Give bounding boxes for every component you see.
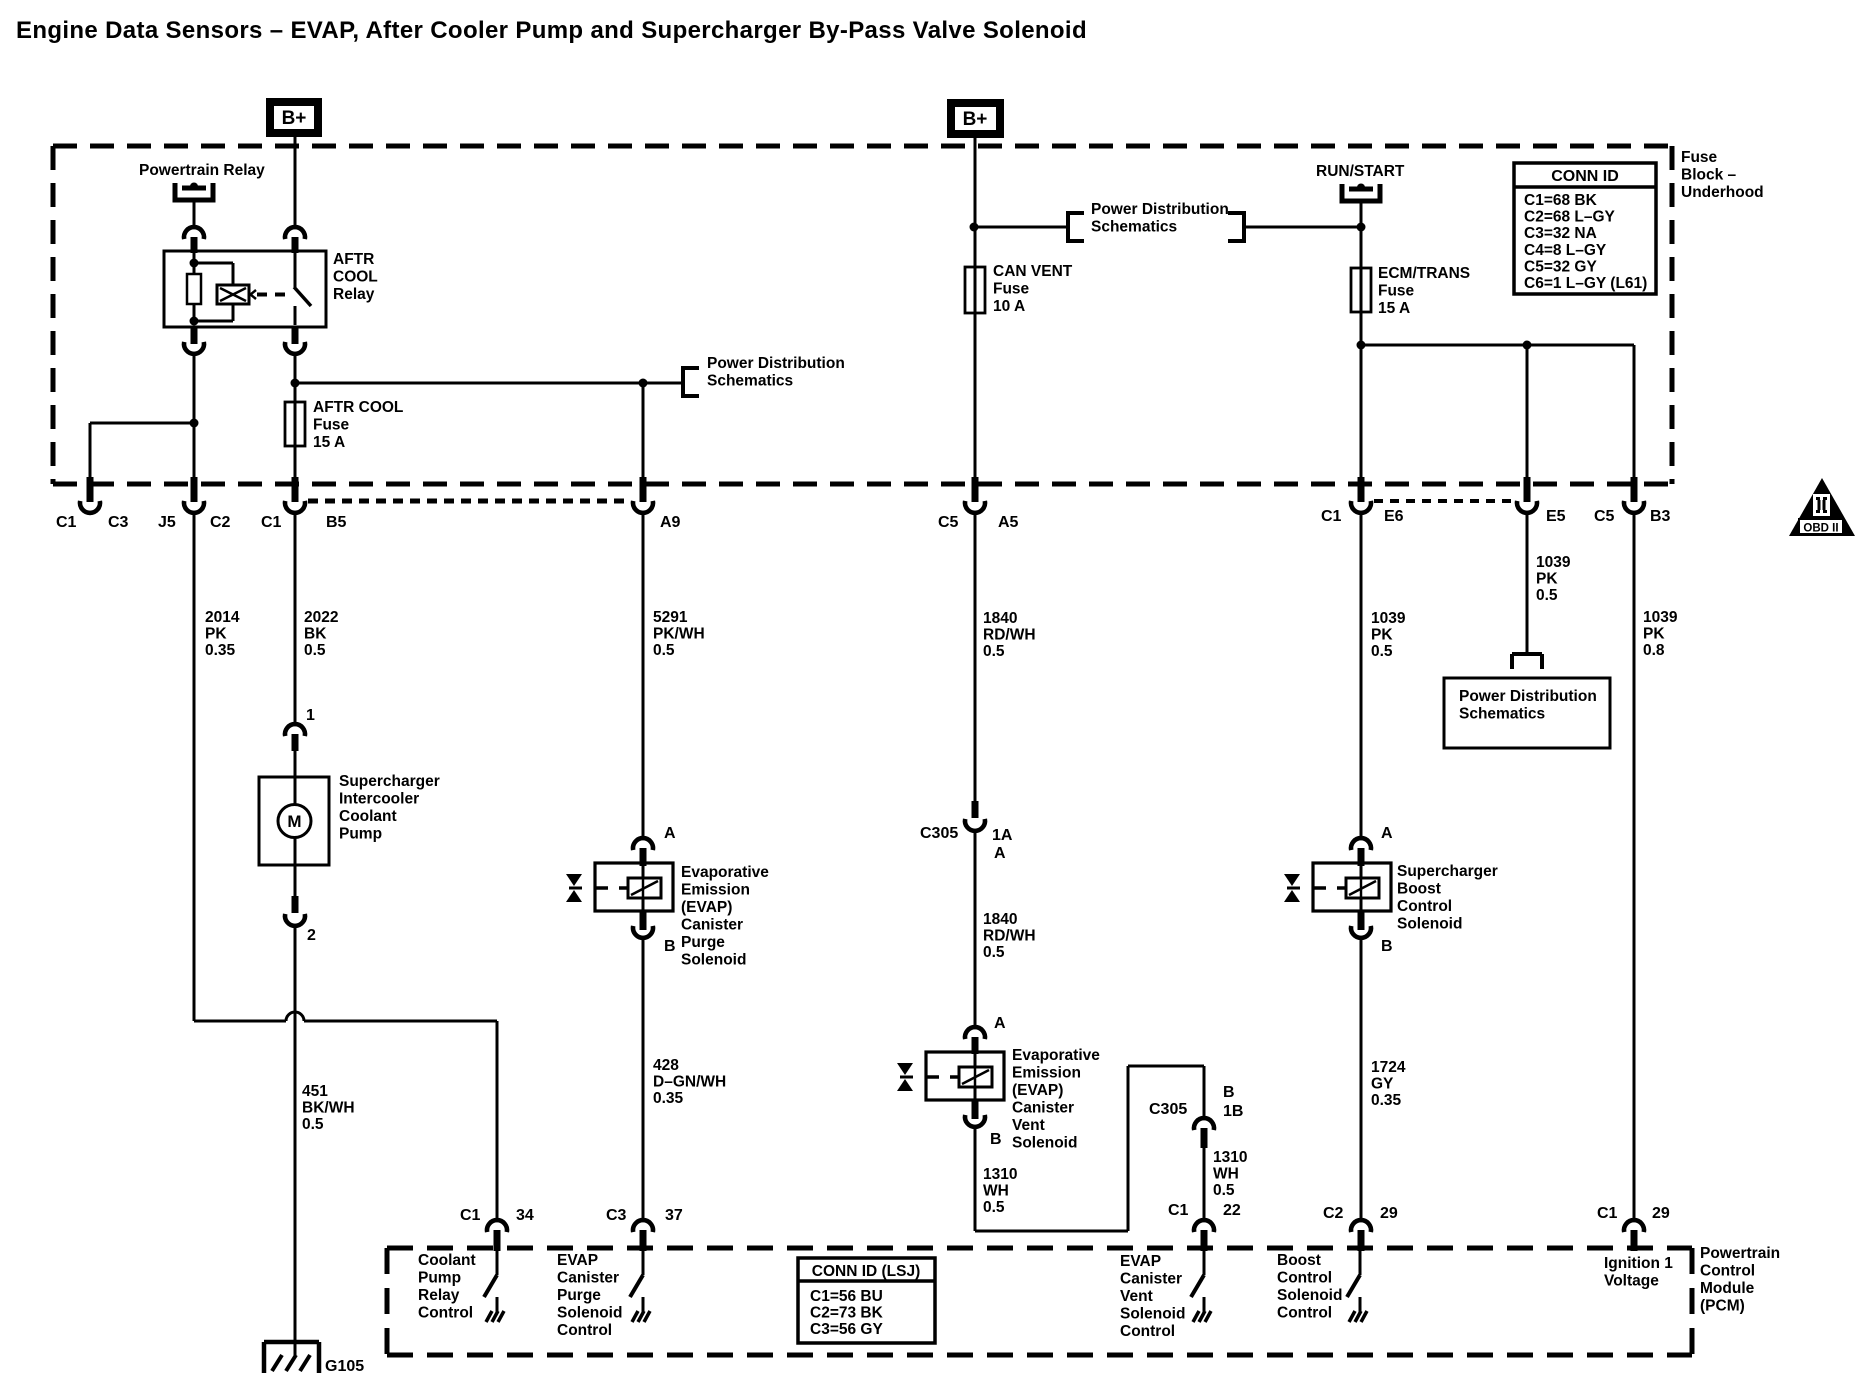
svg-text:0.8: 0.8 (1643, 642, 1665, 659)
solenoid supercharger boost control (1313, 863, 1391, 911)
valve symbol vent (897, 1063, 913, 1091)
label 1B (1223, 1103, 1243, 1120)
svg-text:Control: Control (1397, 898, 1452, 915)
svg-text:C5=32 GY: C5=32 GY (1524, 258, 1597, 275)
label vent pin B (990, 1131, 1002, 1148)
connector boost pin A (1351, 838, 1371, 866)
svg-text:D–GN/WH: D–GN/WH (653, 1074, 726, 1091)
switch EVAP canister vent solenoid control (1191, 1251, 1211, 1322)
table CONN ID LSJ (798, 1258, 935, 1343)
switch boost control solenoid control (1347, 1251, 1367, 1322)
junction CAN VENT feed (970, 223, 979, 232)
svg-text:RUN/START: RUN/START (1316, 163, 1405, 180)
svg-text:1: 1 (306, 707, 315, 724)
bracket power distribution right (1228, 211, 1244, 243)
label Evaporative Emission EVAP Canister Vent Solenoid (1012, 1047, 1100, 1152)
svg-text:0.5: 0.5 (983, 944, 1005, 961)
svg-text:WH: WH (983, 1183, 1009, 1200)
label pin 2 (307, 927, 316, 944)
wire C305 1B to PCM (1203, 1148, 1206, 1220)
wire junction to power distribution bracket (295, 382, 683, 385)
ground G105 (264, 1342, 319, 1373)
label C1 (B5) (261, 514, 282, 531)
label 22 (1223, 1202, 1241, 1219)
label wire 2014 PK 0.35 (205, 609, 240, 659)
connector pump pin 1 (285, 724, 305, 751)
svg-text:Coolant: Coolant (418, 1252, 476, 1269)
label 29 (C1) (1652, 1205, 1670, 1222)
label 37 (665, 1207, 683, 1224)
label pin 1 (306, 707, 315, 724)
svg-text:Emission: Emission (681, 882, 750, 899)
label wire 1039 PK 0.5 (E6) (1371, 610, 1406, 660)
wire B3 to PCM ignition (1633, 514, 1636, 1220)
label 29 (C2) (1380, 1205, 1398, 1222)
svg-text:0.35: 0.35 (653, 1090, 684, 1107)
wire junction to bracket (974, 226, 1068, 229)
svg-text:0.5: 0.5 (1536, 587, 1558, 604)
label wire 1840 RD/WH 0.5 lower (983, 911, 1036, 961)
svg-text:CONN ID (LSJ): CONN ID (LSJ) (812, 1263, 921, 1280)
svg-text:CAN VENT: CAN VENT (993, 263, 1073, 280)
svg-text:Supercharger: Supercharger (339, 773, 440, 790)
box Power Distribution Schematics (1444, 678, 1610, 748)
svg-text:PK: PK (1371, 627, 1393, 644)
connector C305 1A (965, 801, 985, 831)
label Supercharger Intercooler Coolant Pump (339, 773, 440, 843)
svg-text:2022: 2022 (304, 609, 338, 626)
label wire 1310 WH 0.5 (right) (1213, 1149, 1247, 1199)
wire CAN VENT fuse to connector A5 (974, 313, 977, 478)
fuse CAN VENT (965, 267, 985, 313)
wire relay coil pin to connector C2 (193, 355, 196, 478)
label B5 (326, 514, 347, 531)
wire C2 column jog to PCM connector (194, 514, 497, 1220)
wire vent pin B jog to C305 1B (975, 1066, 1204, 1231)
connector PCM C3 37 (633, 1220, 653, 1251)
connector pump pin 2 (285, 865, 305, 926)
svg-text:WH: WH (1213, 1166, 1239, 1183)
wire A5 to C305 (974, 514, 977, 801)
label B3 (1650, 508, 1671, 525)
svg-text:29: 29 (1652, 1205, 1670, 1222)
label wire 428 D-GN/WH 0.35 (653, 1057, 726, 1107)
label J5 (158, 514, 176, 531)
svg-text:(EVAP): (EVAP) (1012, 1082, 1063, 1099)
svg-text:C4=8 L–GY: C4=8 L–GY (1524, 242, 1607, 259)
svg-text:428: 428 (653, 1057, 679, 1074)
connector C1/C3 (80, 477, 100, 513)
svg-text:0.35: 0.35 (205, 642, 236, 659)
fuse block underhood dashed boundary (53, 146, 1672, 484)
label wire 2022 BK 0.5 (304, 609, 338, 659)
label Evaporative Emission EVAP Canister Purge Solenoid (681, 864, 769, 969)
svg-text:Solenoid: Solenoid (681, 952, 746, 969)
run/start feed symbol (1340, 184, 1383, 204)
svg-text:PK: PK (1536, 571, 1558, 588)
symbol OBD II (1789, 478, 1855, 536)
wire run/start to fuse (1360, 201, 1363, 268)
label ECM/TRANS Fuse 15 A (1378, 265, 1470, 317)
svg-text:Boost: Boost (1397, 881, 1441, 898)
svg-text:C3=32 NA: C3=32 NA (1524, 225, 1597, 242)
svg-text:29: 29 (1380, 1205, 1398, 1222)
table CONN ID underhood (1514, 163, 1656, 294)
label 1A (992, 827, 1013, 844)
svg-text:C5: C5 (1594, 508, 1615, 525)
svg-text:A9: A9 (660, 514, 681, 531)
svg-text:Supercharger: Supercharger (1397, 863, 1498, 880)
wire distribution to B3 column (1361, 344, 1634, 347)
label C5 (B3) (1594, 508, 1615, 525)
svg-text:Solenoid: Solenoid (1277, 1287, 1342, 1304)
label wire 1840 RD/WH 0.5 upper (983, 610, 1036, 660)
label Fuse Block - Underhood (1681, 149, 1764, 201)
solenoid EVAP canister purge (595, 863, 673, 911)
svg-text:1A: 1A (992, 827, 1013, 844)
wire B+ right to CAN VENT fuse (974, 138, 977, 267)
svg-text:Power Distribution: Power Distribution (707, 355, 845, 372)
connector relay switch pin bottom (285, 327, 305, 354)
svg-text:B: B (990, 1131, 1002, 1148)
svg-text:Voltage: Voltage (1604, 1273, 1659, 1290)
label Power Distribution Schematics (middle) (1091, 201, 1229, 236)
connector boost pin B (1351, 911, 1371, 938)
label E5 (1546, 508, 1566, 525)
label C3 (37) (606, 1207, 627, 1224)
junction run/start (1357, 223, 1366, 232)
svg-text:Engine Data Sensors – EVAP, Af: Engine Data Sensors – EVAP, After Cooler… (16, 17, 1087, 44)
svg-text:Canister: Canister (1120, 1271, 1182, 1288)
connector purge pin B (633, 911, 653, 938)
svg-text:E5: E5 (1546, 508, 1566, 525)
svg-text:Relay: Relay (418, 1287, 460, 1304)
svg-text:C2=73 BK: C2=73 BK (810, 1305, 884, 1322)
label AFTR COOL Fuse 15 A (313, 399, 403, 451)
svg-text:Vent: Vent (1012, 1117, 1045, 1134)
dotted connector line B5-A9 (308, 499, 631, 504)
relay switch (294, 253, 311, 325)
svg-text:Power Distribution: Power Distribution (1091, 201, 1229, 218)
svg-text:(EVAP): (EVAP) (681, 899, 732, 916)
svg-text:C1: C1 (56, 514, 77, 531)
svg-text:Fuse: Fuse (1378, 283, 1415, 300)
svg-text:Schematics: Schematics (1459, 706, 1545, 723)
svg-text:Fuse: Fuse (313, 417, 350, 434)
dotted connector line E6-E5 (1374, 499, 1514, 503)
svg-text:0.35: 0.35 (1371, 1092, 1402, 1109)
svg-text:Coolant: Coolant (339, 808, 397, 825)
svg-text:B: B (664, 938, 676, 955)
svg-text:1724: 1724 (1371, 1059, 1406, 1076)
fuse AFTR COOL (285, 402, 305, 477)
label Ignition 1 Voltage (1604, 1255, 1673, 1290)
svg-text:RD/WH: RD/WH (983, 928, 1036, 945)
svg-text:C1: C1 (1597, 1205, 1618, 1222)
bracket power distribution reference (683, 366, 699, 398)
svg-text:B+: B+ (282, 108, 307, 129)
svg-text:A: A (994, 845, 1006, 862)
svg-text:1840: 1840 (983, 911, 1017, 928)
connector PCM C1 34 (487, 1220, 507, 1251)
label vent pin A (994, 1015, 1006, 1032)
wire pump pin 2 to G105 (294, 927, 297, 1356)
svg-text:Evaporative: Evaporative (1012, 1047, 1100, 1064)
svg-text:M: M (287, 812, 301, 831)
svg-text:Emission: Emission (1012, 1065, 1081, 1082)
label RUN/START (1316, 163, 1405, 180)
svg-text:0.5: 0.5 (1213, 1182, 1235, 1199)
label Power Distribution Schematics (left) (707, 355, 845, 390)
svg-text:AFTR COOL: AFTR COOL (313, 399, 403, 416)
svg-text:1039: 1039 (1371, 610, 1406, 627)
connector relay switch pin top (285, 227, 305, 253)
svg-text:10 A: 10 A (993, 298, 1025, 315)
fuse ECM/TRANS (1351, 268, 1371, 312)
label EVAP Canister Purge Solenoid Control (557, 1252, 622, 1339)
valve symbol purge (566, 874, 582, 902)
svg-text:A: A (1381, 825, 1393, 842)
svg-text:B: B (1381, 938, 1393, 955)
label B (1B) (1223, 1084, 1235, 1101)
svg-text:1310: 1310 (983, 1166, 1017, 1183)
wire ECM fuse to connector E6 (1360, 311, 1363, 478)
connector J5/C2 (184, 477, 204, 513)
svg-text:37: 37 (665, 1207, 683, 1224)
wire B+ left to relay switch pin (294, 137, 297, 227)
svg-text:C5: C5 (938, 514, 959, 531)
svg-text:Power Distribution: Power Distribution (1459, 688, 1597, 705)
label Coolant Pump Relay Control (418, 1252, 476, 1322)
wire E6 to boost pin A (1360, 514, 1363, 838)
svg-text:Control: Control (1120, 1323, 1175, 1340)
label AFTR COOL Relay (333, 251, 378, 303)
valve symbol boost (1284, 874, 1300, 902)
relay coil solenoid box (217, 285, 256, 304)
svg-text:G105: G105 (325, 1358, 364, 1375)
connector vent pin B (965, 1100, 985, 1127)
wire bracket to RUN/START column (1244, 226, 1361, 229)
wire A9 to purge solenoid pin A (642, 514, 645, 838)
svg-text:C305: C305 (920, 825, 958, 842)
svg-text:0.5: 0.5 (304, 642, 326, 659)
label C305 (1A) (920, 825, 958, 842)
svg-text:COOL: COOL (333, 269, 378, 286)
svg-text:15 A: 15 A (313, 434, 345, 451)
svg-text:1B: 1B (1223, 1103, 1243, 1120)
svg-text:1039: 1039 (1536, 554, 1571, 571)
label C1 (34) (460, 1207, 481, 1224)
svg-text:A: A (664, 825, 676, 842)
svg-text:Solenoid: Solenoid (1012, 1135, 1077, 1152)
label boost pin A (1381, 825, 1393, 842)
svg-text:C1=56 BU: C1=56 BU (810, 1288, 883, 1305)
wire C2 to coolant pump relay control (193, 514, 196, 1021)
label wire 5291 PK/WH 0.5 (653, 609, 705, 659)
svg-text:0.5: 0.5 (653, 642, 675, 659)
svg-text:34: 34 (516, 1207, 534, 1224)
svg-text:C3=56 GY: C3=56 GY (810, 1321, 883, 1338)
connector C1/E6 (1351, 477, 1371, 513)
powertrain relay feed symbol (173, 183, 216, 203)
svg-text:Solenoid: Solenoid (1397, 916, 1462, 933)
label wire 451 BK/WH 0.5 (302, 1083, 355, 1133)
junction C1 branch (190, 419, 199, 428)
svg-text:B5: B5 (326, 514, 347, 531)
wire powertrain feed to relay coil pin (193, 200, 196, 227)
label CAN VENT Fuse 10 A (993, 263, 1073, 315)
junction A9 branch (639, 379, 648, 388)
wire pin 1 stub to pump (294, 751, 297, 777)
svg-text:Powertrain Relay: Powertrain Relay (139, 162, 265, 179)
connector vent pin A (965, 1027, 985, 1054)
svg-text:Vent: Vent (1120, 1288, 1153, 1305)
svg-text:(PCM): (PCM) (1700, 1298, 1745, 1315)
label C2 (210, 514, 231, 531)
svg-text:1310: 1310 (1213, 1149, 1247, 1166)
svg-text:EVAP: EVAP (557, 1252, 598, 1269)
svg-text:2014: 2014 (205, 609, 240, 626)
wire C305 to vent pin A (974, 832, 977, 1027)
svg-text:BK: BK (304, 626, 327, 643)
svg-text:B+: B+ (963, 109, 988, 130)
svg-text:Relay: Relay (333, 286, 375, 303)
svg-text:Control: Control (557, 1322, 612, 1339)
title (16, 17, 1087, 44)
connector A9 (633, 477, 653, 513)
wire branch to connector C1 (90, 423, 194, 478)
svg-text:B: B (1223, 1084, 1235, 1101)
wire B5 to pump pin 1 (294, 514, 297, 724)
label C1 (56, 514, 77, 531)
svg-text:ECM/TRANS: ECM/TRANS (1378, 265, 1470, 282)
wire E5 to reference box (1526, 514, 1529, 655)
svg-text:B3: B3 (1650, 508, 1671, 525)
svg-text:J5: J5 (158, 514, 176, 531)
connector relay coil pin top (184, 227, 204, 253)
svg-text:Schematics: Schematics (707, 373, 793, 390)
svg-text:EVAP: EVAP (1120, 1253, 1161, 1270)
svg-text:PK/WH: PK/WH (653, 626, 705, 643)
connector relay coil pin bottom (184, 327, 204, 354)
connector PCM C2 29 (1351, 1220, 1371, 1251)
svg-text:Fuse: Fuse (1681, 149, 1718, 166)
wire B3 column (1633, 345, 1636, 478)
svg-text:1840: 1840 (983, 610, 1017, 627)
label 34 (516, 1207, 534, 1224)
svg-text:Control: Control (1277, 1270, 1332, 1287)
svg-text:C3: C3 (606, 1207, 627, 1224)
svg-text:Boost: Boost (1277, 1252, 1321, 1269)
svg-text:C2: C2 (1323, 1205, 1344, 1222)
svg-text:Ignition 1: Ignition 1 (1604, 1255, 1673, 1272)
connector PCM C1 22 (1194, 1220, 1214, 1251)
svg-text:0.5: 0.5 (302, 1116, 324, 1133)
switch EVAP canister purge solenoid control (630, 1251, 650, 1322)
svg-text:Evaporative: Evaporative (681, 864, 769, 881)
svg-text:Powertrain: Powertrain (1700, 1245, 1780, 1262)
label C1 (29) (1597, 1205, 1618, 1222)
label purge pin A (664, 825, 676, 842)
connector C1/B5 (285, 477, 305, 513)
svg-text:CONN ID: CONN ID (1551, 168, 1619, 185)
label purge pin B (664, 938, 676, 955)
svg-text:C1: C1 (1168, 1202, 1189, 1219)
svg-text:PK: PK (205, 626, 227, 643)
relay coil junction top (190, 259, 199, 268)
label C305 (1B) (1149, 1101, 1187, 1118)
svg-text:1039: 1039 (1643, 609, 1678, 626)
svg-text:A: A (994, 1015, 1006, 1032)
svg-text:Control: Control (418, 1305, 473, 1322)
svg-text:C1: C1 (261, 514, 282, 531)
svg-text:22: 22 (1223, 1202, 1241, 1219)
svg-text:0.5: 0.5 (983, 643, 1005, 660)
label A5 (998, 514, 1019, 531)
svg-text:C1: C1 (460, 1207, 481, 1224)
svg-text:C305: C305 (1149, 1101, 1187, 1118)
svg-text:Canister: Canister (557, 1270, 619, 1287)
svg-text:Solenoid: Solenoid (1120, 1306, 1185, 1323)
svg-text:Intercooler: Intercooler (339, 791, 419, 808)
svg-text:C1: C1 (1321, 508, 1342, 525)
relay coil junction bottom (190, 317, 199, 326)
svg-text:C3: C3 (108, 514, 129, 531)
svg-text:C6=1 L–GY (L61): C6=1 L–GY (L61) (1524, 275, 1647, 292)
label C2 (29) (1323, 1205, 1344, 1222)
svg-text:Block –: Block – (1681, 167, 1737, 184)
svg-text:Control: Control (1700, 1263, 1755, 1280)
label E6 (1384, 508, 1404, 525)
label Powertrain Control Module PCM (1700, 1245, 1780, 1315)
label boost pin B (1381, 938, 1393, 955)
label Boost Control Solenoid Control (1277, 1252, 1342, 1322)
bracket power distribution left (1068, 211, 1084, 243)
label wire 1039 PK 0.8 (B3) (1643, 609, 1678, 659)
junction AFTR COOL feed (291, 379, 300, 388)
label EVAP Canister Vent Solenoid Control (1120, 1253, 1185, 1340)
label wire 1310 WH 0.5 (left) (983, 1166, 1017, 1216)
svg-text:C1=68 BK: C1=68 BK (1524, 192, 1598, 209)
junction E5 branch (1523, 341, 1532, 350)
label A9 (660, 514, 681, 531)
svg-text:0.5: 0.5 (1371, 643, 1393, 660)
svg-text:C2: C2 (210, 514, 231, 531)
power symbol B+ (left) (266, 98, 322, 137)
junction E6 distribution (1357, 341, 1366, 350)
svg-text:451: 451 (302, 1083, 328, 1100)
svg-text:Canister: Canister (681, 917, 743, 934)
label wire 1039 PK 0.5 (E5) (1536, 554, 1571, 604)
connector E5 (1517, 477, 1537, 513)
svg-text:Canister: Canister (1012, 1100, 1074, 1117)
label wire 1724 GY 0.35 (1371, 1059, 1406, 1109)
svg-text:Solenoid: Solenoid (557, 1305, 622, 1322)
svg-text:BK/WH: BK/WH (302, 1100, 355, 1117)
label Powertrain Relay (139, 162, 265, 179)
svg-text:RD/WH: RD/WH (983, 627, 1036, 644)
wire purge pin B to PCM (642, 939, 645, 1220)
svg-text:A5: A5 (998, 514, 1019, 531)
svg-text:PK: PK (1643, 626, 1665, 643)
relay coil branch wires (194, 263, 233, 321)
connector PCM C1 29 (1624, 1220, 1644, 1251)
relay coil resistor (187, 253, 201, 325)
powertrain control module dashed boundary (387, 1248, 1692, 1355)
svg-text:Purge: Purge (557, 1287, 601, 1304)
bracket above reference box (1512, 654, 1542, 669)
svg-text:OBD II: OBD II (1803, 523, 1838, 535)
